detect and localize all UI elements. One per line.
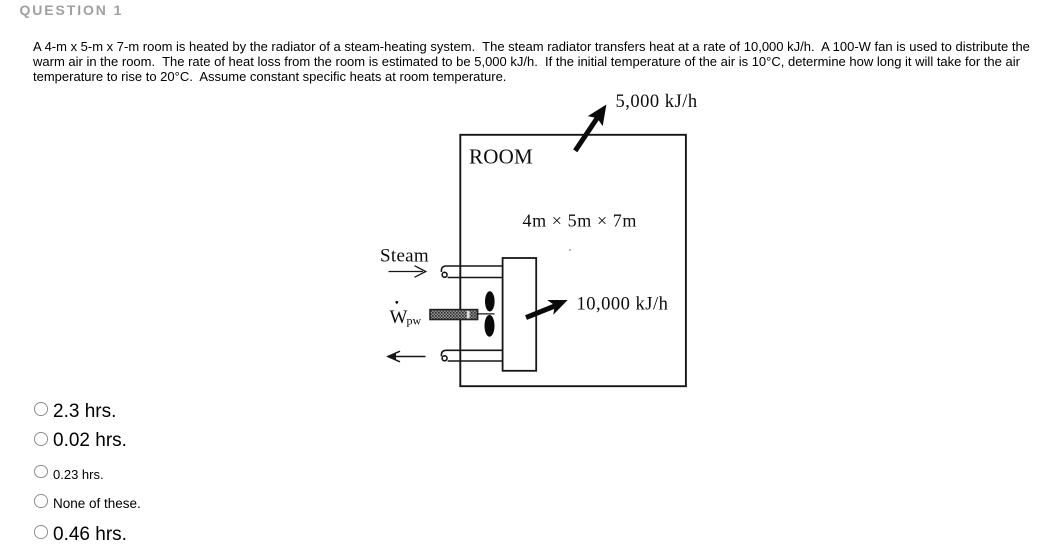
steam outlet arrow (left) <box>388 351 426 362</box>
answer option 3 <box>0 0 1040 1</box>
scan speck <box>569 249 571 251</box>
answer option 5 <box>0 0 1040 1</box>
svg-text:4m × 5m × 7m: 4m × 5m × 7m <box>523 210 638 230</box>
fan shaft line <box>477 313 495 315</box>
answer option 1 <box>0 0 1040 1</box>
fan blades <box>485 291 495 336</box>
question paragraph <box>33 39 1030 85</box>
answer option 2 <box>0 0 1040 1</box>
svg-text:ROOM: ROOM <box>469 145 533 169</box>
figure: scanned room diagram <box>370 85 710 395</box>
steam return pipe (lower) <box>441 350 502 361</box>
svg-text:pw: pw <box>407 313 422 327</box>
room wall rectangle <box>460 135 686 386</box>
heat loss arrow 5,000 (thick) <box>575 105 606 151</box>
svg-text:5,000 kJ/h: 5,000 kJ/h <box>616 92 698 112</box>
radiator heat arrow 10,000 (thick) <box>526 300 568 318</box>
svg-text:Steam: Steam <box>380 246 429 267</box>
steam inlet arrow (right) <box>389 266 426 278</box>
answer option 4 <box>0 0 1040 1</box>
radiator box <box>503 258 537 371</box>
svg-text:W: W <box>390 307 408 328</box>
svg-text:10,000 kJ/h: 10,000 kJ/h <box>577 294 669 314</box>
question header <box>20 3 124 17</box>
steam supply pipe (upper) <box>441 266 502 278</box>
label W_pw with dot <box>390 301 422 328</box>
